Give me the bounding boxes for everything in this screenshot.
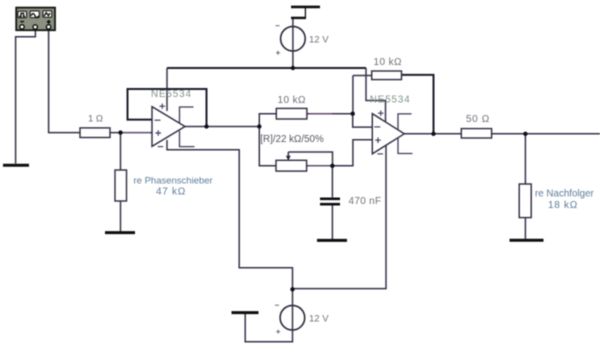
svg-text:[R]/22 kΩ/50%: [R]/22 kΩ/50% xyxy=(260,134,324,145)
svg-text:NE5534: NE5534 xyxy=(370,94,411,105)
svg-text:470 nF: 470 nF xyxy=(349,196,382,207)
svg-text:12 V: 12 V xyxy=(309,314,329,325)
svg-text:50 Ω: 50 Ω xyxy=(466,114,490,125)
svg-text:12 V: 12 V xyxy=(309,35,329,46)
svg-text:10 kΩ: 10 kΩ xyxy=(278,95,307,106)
svg-text:47 kΩ: 47 kΩ xyxy=(156,186,186,197)
svg-text:re Nachfolger: re Nachfolger xyxy=(535,188,595,199)
svg-text:NE5534: NE5534 xyxy=(151,89,192,100)
svg-text:1 Ω: 1 Ω xyxy=(88,114,103,125)
svg-text:10 kΩ: 10 kΩ xyxy=(374,57,403,68)
svg-text:18 kΩ: 18 kΩ xyxy=(548,200,578,211)
svg-text:re Phasenschieber: re Phasenschieber xyxy=(134,176,213,187)
